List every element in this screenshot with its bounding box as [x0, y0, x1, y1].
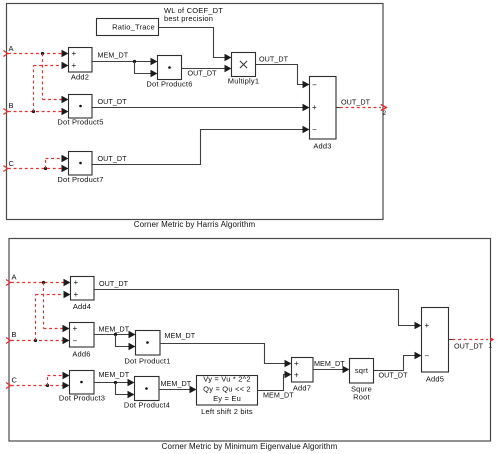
wire Dot Product6 out OUT_DT to Multiply1 in2 [182, 65, 232, 78]
svg-text:MEM_DT: MEM_DT [165, 331, 196, 340]
input port C [3, 159, 14, 172]
svg-text:Root: Root [353, 393, 370, 402]
svg-text:C: C [9, 159, 15, 168]
svg-text:−: − [73, 336, 78, 345]
wire Add3 out OUT_DT (red dashed) [336, 98, 381, 108]
svg-text:Left shift 2 bits: Left shift 2 bits [201, 407, 253, 416]
svg-text:Add2: Add2 [71, 73, 89, 82]
svg-text:OUT_DT: OUT_DT [99, 279, 129, 288]
svg-text:+: + [74, 290, 79, 299]
svg-text:+: + [72, 49, 77, 58]
input port B [3, 101, 13, 115]
junction on MEM_DT wire [133, 60, 136, 63]
input port C (bottom) [6, 376, 18, 389]
annotation WL of COEF_DT best precision [164, 6, 223, 23]
svg-text:Dot Product1: Dot Product1 [124, 357, 170, 366]
svg-text:OUT_DT: OUT_DT [341, 98, 371, 107]
wire Dot Product5 out OUT_DT to Add3 in2 [92, 97, 310, 111]
svg-text:OUT_DT: OUT_DT [98, 97, 128, 106]
wire B up to Add4 in2 [36, 291, 71, 341]
junction on A wire (bottom) [42, 281, 45, 284]
output port OUT_DT (Minimum Eigenvalue) [489, 337, 495, 349]
sum block Add7 [292, 358, 314, 393]
svg-text:−: − [425, 351, 430, 360]
svg-text:A: A [12, 273, 17, 282]
wire Dot Product1 out MEM_DT to Add7 in1 [160, 331, 292, 367]
wire Add6 out MEM_DT [94, 325, 136, 339]
output port OUT_DT (Harris) [381, 104, 387, 116]
svg-text:Corner Metric by Minimum Eigen: Corner Metric by Minimum Eigenvalue Algo… [162, 442, 338, 451]
product block Multiply1 [228, 53, 259, 86]
wire Dot Product4 out MEM_DT to shift block [159, 379, 197, 393]
svg-text:MEM_DT: MEM_DT [99, 325, 130, 334]
wire A to Add2 in1 [8, 50, 69, 57]
dot product block Dot Product4 [124, 377, 170, 410]
junction on C wire [44, 167, 47, 170]
wire Add5 out OUT_DT (red dashed) [449, 340, 489, 351]
svg-text:Add6: Add6 [72, 350, 90, 359]
sum block Add6 [70, 323, 95, 359]
svg-text:Add7: Add7 [293, 384, 311, 393]
svg-text:MEM_DT: MEM_DT [99, 370, 130, 379]
svg-text:−: − [312, 125, 317, 134]
dot product block Dot Product1 [124, 331, 170, 366]
svg-text:+: + [294, 359, 299, 368]
wire C up to Dot Product3 in1 [48, 372, 70, 386]
input port A [3, 44, 13, 57]
wire Ratio_Trace to Multiply1 in1 [159, 28, 232, 62]
svg-text:A: A [9, 44, 14, 53]
wire Dot Product3 out MEM_DT [94, 370, 135, 386]
svg-text:best precision: best precision [164, 14, 213, 23]
wire A down to Add6 in1 [44, 283, 70, 333]
wire B up to Add2 in2 [34, 62, 69, 112]
wire Squre Root out OUT_DT to Add5 in2 [374, 352, 422, 380]
dot product block Dot Product3 [59, 371, 105, 403]
svg-text:Corner Metric by Harris Algori: Corner Metric by Harris Algorithm [134, 220, 256, 229]
svg-text:OUT_DT: OUT_DT [259, 55, 289, 64]
wire C up to Dot Product7 in1 [46, 155, 69, 169]
svg-text:−: − [312, 80, 317, 89]
caption Harris [134, 220, 256, 229]
svg-text:Ratio_Trace: Ratio_Trace [112, 23, 155, 32]
input port A (bottom) [6, 273, 17, 286]
wire A down to Dot Product5 in1 [43, 54, 69, 104]
svg-text:2: 2 [383, 110, 387, 117]
svg-text:Dot Product4: Dot Product4 [124, 401, 170, 410]
sqrt block Squre Root [350, 359, 374, 402]
svg-text:Add4: Add4 [73, 302, 91, 311]
sum block Add2 [69, 48, 93, 82]
wire C to Dot Product3 in2 [11, 382, 70, 389]
svg-text:Ey = Eu: Ey = Eu [213, 394, 241, 403]
junction on C wire (bottom) [46, 384, 49, 387]
svg-text:OUT_DT: OUT_DT [379, 371, 409, 380]
svg-text:MEM_DT: MEM_DT [161, 379, 192, 388]
svg-text:Qy = Qu << 2: Qy = Qu << 2 [203, 384, 251, 393]
wire Multiply1 out OUT_DT to Add3 in1 [256, 55, 310, 89]
dot product block Dot Product6 [146, 56, 192, 89]
wire Add4 out OUT_DT to Add5 in1 [94, 279, 422, 329]
junction on A wire [41, 52, 44, 55]
svg-text:+: + [294, 371, 299, 380]
svg-text:B: B [9, 101, 14, 110]
wire A to Add4 in1 [11, 279, 71, 286]
svg-text:Vy = Vu * 2^2: Vy = Vu * 2^2 [203, 375, 250, 384]
svg-text:+: + [425, 321, 430, 330]
svg-text:C: C [12, 376, 18, 385]
wire branch down to Dot Product1 in2 [116, 335, 136, 351]
junction on B wire [32, 110, 35, 113]
junction on Add6 out wire [114, 333, 117, 336]
caption Minimum Eigenvalue [162, 442, 338, 451]
junction on Dot Product3 out wire [114, 381, 117, 384]
wire Dot Product7 out OUT_DT to Add3 in3 [92, 126, 310, 165]
svg-text:Add3: Add3 [313, 142, 331, 151]
input port B (bottom) [6, 330, 17, 344]
wire B to Add6 in2 [11, 337, 70, 344]
svg-text:sqrt: sqrt [355, 366, 369, 375]
svg-text:OUT_DT: OUT_DT [188, 69, 218, 78]
svg-text:Dot Product7: Dot Product7 [57, 175, 103, 184]
svg-text:Dot Product6: Dot Product6 [146, 80, 192, 89]
constant block Ratio_Trace [97, 19, 159, 36]
subsystem frame (Harris) [7, 4, 384, 220]
dot product block Dot Product5 [57, 95, 103, 127]
sum block Add4 [71, 277, 95, 312]
svg-text:Dot Product3: Dot Product3 [59, 394, 105, 403]
svg-text:OUT_DT: OUT_DT [98, 154, 128, 163]
svg-text:B: B [12, 330, 17, 339]
junction on B wire (bottom) [34, 339, 37, 342]
subsystem frame (Minimum Eigenvalue) [9, 239, 491, 442]
dot product block Dot Product7 [57, 152, 103, 185]
wire C to Dot Product7 in2 [8, 165, 69, 172]
svg-text:Add5: Add5 [426, 375, 444, 384]
svg-text:+: + [72, 61, 77, 70]
wire branch down to Dot Product6 in2 [135, 62, 158, 78]
svg-text:+: + [73, 324, 78, 333]
svg-text:MEM_DT: MEM_DT [263, 391, 294, 400]
svg-text:+: + [312, 103, 317, 112]
wire Add7 out MEM_DT to Squre Root [313, 359, 350, 373]
shift block Left shift 2 bits [197, 375, 258, 417]
wire shift block out MEM_DT to Add7 in2 [258, 371, 295, 400]
svg-text:+: + [74, 278, 79, 287]
svg-text:Multiply1: Multiply1 [228, 77, 259, 86]
svg-text:Dot Product5: Dot Product5 [57, 118, 103, 127]
svg-text:OUT_DT: OUT_DT [454, 342, 484, 351]
sum block Add5 [422, 308, 449, 384]
svg-text:MEM_DT: MEM_DT [314, 359, 345, 368]
wire B to Dot Product5 in2 [8, 108, 69, 115]
sum block Add3 [310, 77, 337, 151]
wire branch down to Dot Product4 in2 [116, 383, 135, 399]
svg-text:1: 1 [489, 343, 493, 350]
svg-text:MEM_DT: MEM_DT [98, 51, 129, 60]
wire Add2 out MEM_DT [92, 51, 158, 66]
